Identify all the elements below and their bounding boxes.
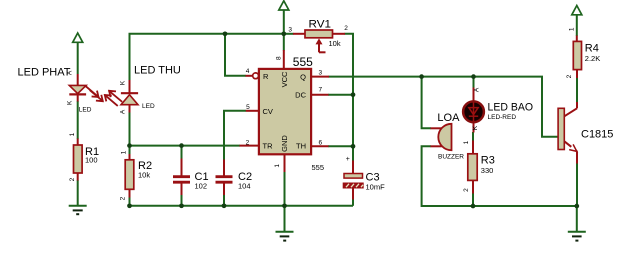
svg-text:LED-RED: LED-RED — [488, 114, 517, 121]
svg-text:1: 1 — [120, 150, 127, 154]
svg-text:1: 1 — [69, 132, 76, 136]
svg-text:2: 2 — [344, 25, 348, 32]
svg-text:LED BAO: LED BAO — [488, 102, 534, 114]
svg-text:2: 2 — [463, 188, 470, 192]
svg-text:R4: R4 — [585, 43, 599, 55]
svg-text:4: 4 — [246, 68, 250, 75]
svg-text:C1815: C1815 — [581, 129, 613, 141]
svg-text:2: 2 — [120, 196, 127, 200]
svg-text:2.2K: 2.2K — [585, 54, 600, 63]
svg-text:LED PHAT: LED PHAT — [18, 67, 71, 79]
svg-text:5: 5 — [246, 104, 250, 111]
svg-text:LOA: LOA — [437, 112, 460, 124]
svg-text:LED: LED — [79, 107, 92, 114]
svg-text:K: K — [472, 125, 479, 130]
svg-text:330: 330 — [481, 166, 494, 175]
svg-text:A: A — [119, 109, 126, 114]
svg-text:Q: Q — [300, 72, 306, 81]
svg-text:8: 8 — [275, 56, 282, 60]
svg-text:DC: DC — [295, 90, 306, 99]
svg-text:104: 104 — [238, 182, 251, 191]
svg-text:102: 102 — [195, 182, 208, 191]
svg-text:K: K — [67, 100, 74, 105]
svg-text:+: + — [346, 156, 350, 163]
svg-text:K: K — [119, 80, 126, 85]
svg-text:RV1: RV1 — [309, 19, 332, 31]
svg-text:A: A — [474, 87, 481, 92]
svg-text:TH: TH — [296, 142, 306, 151]
svg-text:BUZZER: BUZZER — [438, 154, 464, 161]
svg-text:6: 6 — [319, 139, 323, 146]
svg-text:LED THU: LED THU — [134, 65, 181, 77]
svg-text:A: A — [67, 70, 74, 75]
svg-text:R: R — [263, 72, 269, 81]
svg-text:1: 1 — [568, 27, 575, 31]
svg-text:R3: R3 — [481, 155, 495, 167]
svg-text:10k: 10k — [138, 171, 150, 180]
svg-text:1: 1 — [463, 140, 470, 144]
svg-text:10mF: 10mF — [366, 183, 386, 192]
svg-text:10k: 10k — [329, 39, 341, 48]
svg-text:3: 3 — [288, 26, 292, 33]
svg-text:555: 555 — [293, 55, 313, 69]
svg-text:CV: CV — [263, 107, 273, 116]
svg-text:3: 3 — [319, 70, 323, 77]
svg-text:1: 1 — [274, 164, 281, 168]
svg-text:VCC: VCC — [280, 71, 289, 87]
svg-text:100: 100 — [85, 156, 98, 165]
svg-text:2: 2 — [69, 177, 76, 181]
svg-text:2: 2 — [566, 74, 573, 78]
svg-text:LED: LED — [142, 103, 155, 110]
svg-text:GND: GND — [280, 135, 289, 152]
svg-text:555: 555 — [312, 163, 325, 172]
svg-text:TR: TR — [263, 142, 274, 151]
svg-text:7: 7 — [319, 86, 323, 93]
svg-text:2: 2 — [246, 140, 250, 147]
